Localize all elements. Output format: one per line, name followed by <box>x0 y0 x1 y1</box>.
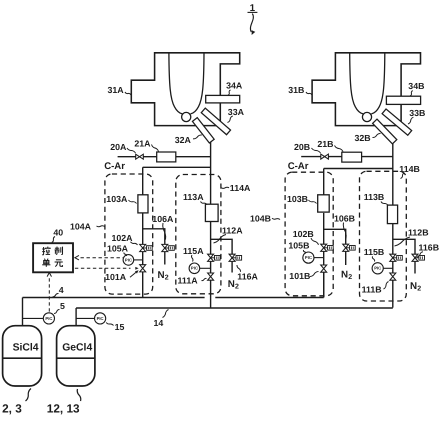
svg-text:32B: 32B <box>355 133 371 143</box>
svg-text:113B: 113B <box>364 192 385 202</box>
svg-text:PIC: PIC <box>125 257 132 262</box>
svg-text:33B: 33B <box>409 108 425 118</box>
svg-text:115A: 115A <box>183 246 204 256</box>
svg-text:104A: 104A <box>70 222 92 232</box>
svg-text:PIC: PIC <box>305 255 312 260</box>
svg-text:34B: 34B <box>408 81 424 91</box>
svg-text:C-Ar: C-Ar <box>104 161 125 172</box>
svg-text:106B: 106B <box>334 213 355 223</box>
svg-text:PIC: PIC <box>45 316 52 321</box>
svg-text:102B: 102B <box>293 229 314 239</box>
svg-text:2: 2 <box>417 285 421 292</box>
svg-text:C-Ar: C-Ar <box>288 161 309 172</box>
svg-text:114B: 114B <box>399 164 420 174</box>
svg-text:40: 40 <box>53 227 63 237</box>
svg-text:N: N <box>341 270 348 281</box>
svg-text:12, 13: 12, 13 <box>47 402 80 416</box>
svg-text:105A: 105A <box>107 243 129 253</box>
svg-text:4: 4 <box>59 285 64 295</box>
svg-text:N: N <box>410 281 417 292</box>
svg-text:20B: 20B <box>294 142 310 152</box>
svg-text:104B: 104B <box>250 214 271 224</box>
svg-text:PIC: PIC <box>191 266 198 271</box>
svg-text:2: 2 <box>235 284 239 291</box>
svg-text:105B: 105B <box>288 241 309 251</box>
svg-text:102A: 102A <box>112 233 134 243</box>
svg-text:31A: 31A <box>108 85 125 95</box>
svg-text:112B: 112B <box>408 228 429 238</box>
svg-text:14: 14 <box>154 318 164 328</box>
svg-text:116B: 116B <box>419 243 440 253</box>
svg-text:101A: 101A <box>105 272 127 282</box>
svg-text:31B: 31B <box>288 85 304 95</box>
svg-text:32A: 32A <box>175 135 192 145</box>
svg-text:103A: 103A <box>106 194 128 204</box>
svg-text:5: 5 <box>60 301 65 311</box>
svg-text:N: N <box>228 279 235 290</box>
svg-text:15: 15 <box>115 322 125 332</box>
svg-text:PIC: PIC <box>374 266 381 271</box>
svg-text:116A: 116A <box>237 272 258 282</box>
svg-text:2, 3: 2, 3 <box>2 402 22 416</box>
svg-text:115B: 115B <box>364 247 385 257</box>
svg-text:2: 2 <box>165 275 169 282</box>
svg-text:2: 2 <box>348 274 352 281</box>
svg-text:21B: 21B <box>317 139 333 149</box>
svg-text:21A: 21A <box>134 138 151 148</box>
svg-text:113A: 113A <box>183 192 204 202</box>
svg-text:33A: 33A <box>228 107 245 117</box>
svg-text:111A: 111A <box>178 276 199 286</box>
svg-text:106A: 106A <box>152 214 174 224</box>
svg-text:GeCl4: GeCl4 <box>62 342 92 353</box>
svg-text:PIC: PIC <box>97 316 104 321</box>
svg-text:112A: 112A <box>222 225 243 235</box>
svg-text:111B: 111B <box>362 284 382 294</box>
svg-text:103B: 103B <box>287 194 308 204</box>
svg-text:114A: 114A <box>230 183 251 193</box>
svg-text:34A: 34A <box>226 80 243 90</box>
svg-text:20A: 20A <box>110 142 127 152</box>
svg-text:SiCl4: SiCl4 <box>13 342 39 353</box>
svg-text:101B: 101B <box>289 271 310 281</box>
svg-text:N: N <box>158 270 165 281</box>
